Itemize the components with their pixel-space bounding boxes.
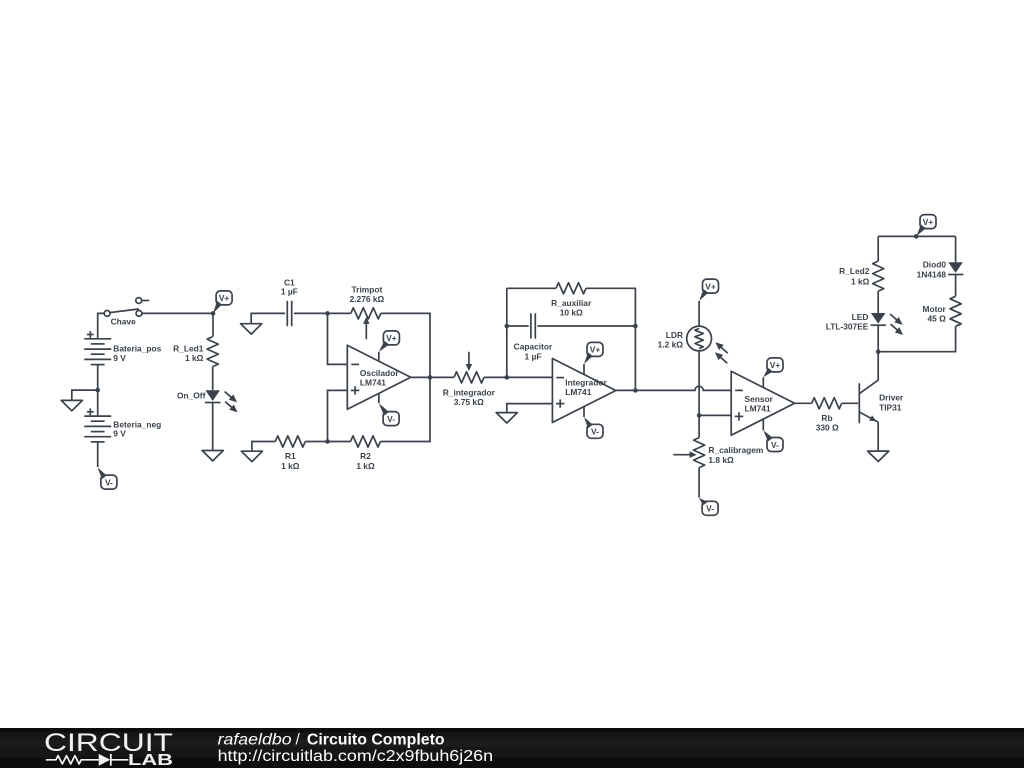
resistor R1 — [275, 436, 305, 447]
wire — [506, 288, 508, 377]
wire — [252, 442, 275, 452]
wire — [877, 325, 879, 352]
transistor Driver TIP31 — [858, 384, 860, 423]
svg-text:10 kΩ: 10 kΩ — [560, 308, 583, 318]
svg-text:Oscilador: Oscilador — [360, 368, 399, 378]
svg-text:R_auxiliar: R_auxiliar — [551, 298, 592, 308]
junction — [211, 311, 216, 316]
net flag V- (op-amp Oscilador) — [378, 393, 380, 403]
svg-text:1N4148: 1N4148 — [917, 270, 947, 280]
op-amp Sensor LM741 — [731, 371, 794, 435]
ground — [61, 400, 82, 410]
LED light arrows — [225, 392, 232, 398]
wire — [305, 441, 327, 443]
wire — [877, 352, 879, 380]
svg-text:Integrador: Integrador — [565, 377, 607, 387]
pot arrow — [673, 454, 690, 456]
svg-text:1 kΩ: 1 kΩ — [185, 353, 204, 363]
svg-text:1.8 kΩ: 1.8 kΩ — [708, 455, 734, 465]
wire — [955, 236, 957, 262]
svg-text:LED: LED — [852, 312, 869, 322]
wire — [877, 236, 879, 261]
wire — [97, 442, 99, 467]
wire — [507, 325, 529, 327]
junction — [633, 324, 638, 329]
svg-text:1 kΩ: 1 kΩ — [281, 461, 300, 471]
LED light arrows — [890, 314, 897, 320]
motor Motor 45 — [950, 296, 961, 326]
net flag V+ (supply) — [213, 301, 222, 314]
wire — [795, 402, 812, 404]
diode Diod0 1N4148 — [948, 262, 963, 273]
wire — [616, 389, 636, 391]
svg-text:2.276 kΩ: 2.276 kΩ — [350, 294, 385, 304]
junction node A — [325, 311, 330, 316]
wire — [294, 312, 328, 314]
potentiometer R_calibragem — [694, 438, 705, 468]
wire — [698, 301, 700, 326]
svg-text:V+: V+ — [923, 217, 934, 227]
resistor R2 — [351, 436, 381, 447]
wire — [507, 404, 553, 413]
wire — [328, 312, 351, 314]
svg-text:Chave: Chave — [111, 317, 136, 327]
wire — [878, 235, 955, 237]
svg-text:LM741: LM741 — [565, 387, 591, 397]
ground — [868, 451, 889, 461]
svg-text:LTL-307EE: LTL-307EE — [826, 322, 869, 332]
svg-text:45 Ω: 45 Ω — [927, 314, 946, 324]
svg-text:rafaeldbo: rafaeldbo — [218, 731, 292, 748]
wire — [142, 312, 213, 314]
svg-text:V-: V- — [591, 427, 599, 437]
op-amp Oscilador LM741 — [347, 345, 410, 409]
junction — [505, 375, 510, 380]
svg-text:R_integrador: R_integrador — [443, 387, 496, 397]
svg-text:LAB: LAB — [128, 752, 173, 768]
trimpot arrow — [365, 323, 367, 340]
svg-text:On_Off: On_Off — [177, 390, 206, 400]
wire — [328, 390, 348, 441]
LDR light arrows — [721, 347, 728, 353]
wire with hop — [635, 386, 731, 390]
svg-text:LM741: LM741 — [360, 378, 386, 388]
ground — [202, 451, 223, 461]
svg-text:9 V: 9 V — [113, 429, 126, 439]
svg-text:V-: V- — [387, 414, 395, 424]
switch Chave — [110, 309, 139, 313]
net flag V+ (op-amp Integrador) — [583, 364, 585, 375]
LED On_Off — [205, 390, 220, 401]
resistor Rb — [812, 398, 842, 409]
wire — [97, 390, 99, 416]
wire — [698, 468, 700, 498]
svg-text:http://circuitlab.com/c2x9fbuh: http://circuitlab.com/c2x9fbuh6j26n — [218, 748, 494, 765]
wire — [877, 291, 879, 313]
junction — [428, 375, 433, 380]
svg-text:1 µF: 1 µF — [525, 351, 542, 361]
ground — [496, 413, 517, 423]
battery Beteria_neg — [84, 415, 111, 417]
resistor R_auxiliar — [556, 283, 586, 294]
wire — [877, 422, 879, 451]
wire — [484, 376, 507, 378]
wire — [698, 415, 700, 437]
svg-text:V-: V- — [105, 477, 113, 487]
wire — [507, 376, 553, 378]
net flag V+ (output stage) — [916, 225, 926, 237]
wire — [430, 376, 454, 378]
wire — [842, 402, 858, 404]
rheostat R_integrador — [454, 372, 484, 383]
rheostat arrow — [468, 352, 470, 365]
svg-text:R_Led2: R_Led2 — [839, 266, 870, 276]
wire — [878, 326, 955, 351]
photoresistor LDR — [687, 326, 712, 351]
svg-text:3.75 kΩ: 3.75 kΩ — [454, 397, 484, 407]
junction — [325, 439, 330, 444]
wire — [411, 376, 430, 378]
svg-text:Rb: Rb — [821, 413, 832, 423]
wire — [98, 313, 104, 338]
wire — [251, 313, 285, 323]
svg-text:/: / — [296, 731, 301, 748]
net flag V+ (op-amp Oscilador) — [378, 352, 380, 361]
svg-text:V+: V+ — [386, 333, 397, 343]
net flag V+ (op-amp Sensor) — [762, 377, 764, 387]
svg-text:Capacitor: Capacitor — [514, 342, 553, 352]
svg-text:V-: V- — [771, 440, 779, 450]
svg-text:V+: V+ — [590, 345, 601, 355]
svg-text:1 kΩ: 1 kΩ — [851, 276, 870, 286]
svg-text:Driver: Driver — [879, 393, 904, 403]
footer bar — [0, 728, 1024, 768]
junction — [914, 234, 919, 239]
svg-text:LM741: LM741 — [745, 404, 771, 414]
svg-text:9 V: 9 V — [113, 353, 126, 363]
svg-text:V+: V+ — [219, 293, 230, 303]
svg-text:Motor: Motor — [923, 304, 947, 314]
wire — [97, 365, 99, 391]
wire — [212, 367, 214, 391]
svg-text:Circuito Completo: Circuito Completo — [307, 731, 445, 748]
svg-text:1 µF: 1 µF — [281, 287, 298, 297]
svg-text:330 Ω: 330 Ω — [816, 423, 839, 433]
svg-text:R_Led1: R_Led1 — [173, 343, 204, 353]
svg-text:1 kΩ: 1 kΩ — [356, 461, 375, 471]
net flag V- (R_calibragem) — [699, 498, 708, 505]
ground — [241, 324, 262, 334]
capacitor Capacitor — [530, 313, 532, 338]
wire — [955, 274, 957, 296]
svg-text:V+: V+ — [770, 360, 781, 370]
junction — [633, 388, 638, 393]
resistor R_Led1 — [207, 337, 218, 367]
wire — [212, 402, 214, 450]
svg-text:Diod0: Diod0 — [923, 259, 947, 269]
svg-text:R1: R1 — [285, 451, 296, 461]
ground — [241, 451, 262, 461]
svg-text:Sensor: Sensor — [745, 394, 774, 404]
wire — [381, 377, 431, 441]
net flag V+ (LDR) — [699, 289, 708, 301]
wire — [328, 441, 351, 443]
wire — [699, 414, 731, 416]
wire — [381, 313, 430, 377]
svg-text:V+: V+ — [705, 281, 716, 291]
wire — [328, 313, 348, 364]
svg-text:V-: V- — [706, 504, 714, 514]
svg-text:Bateria_pos: Bateria_pos — [113, 343, 161, 353]
op-amp Integrador LM741 — [552, 359, 615, 423]
logo resistor-diode glyph — [46, 756, 99, 764]
wire — [212, 313, 214, 336]
junction — [95, 388, 100, 393]
net flag V- (op-amp Integrador) — [583, 407, 585, 417]
junction — [697, 413, 702, 418]
svg-text:R_calibragem: R_calibragem — [708, 445, 763, 455]
wire — [698, 351, 700, 416]
wire — [72, 390, 98, 400]
junction — [876, 349, 881, 354]
junction — [505, 324, 510, 329]
LED LED LTL-307EE — [871, 313, 886, 324]
svg-text:LDR: LDR — [666, 330, 683, 340]
wire — [586, 288, 635, 390]
wire — [507, 287, 556, 289]
potentiometer Trimpot — [351, 308, 381, 319]
wire — [538, 325, 636, 327]
capacitor C1 — [286, 301, 288, 326]
resistor R_Led2 — [873, 261, 884, 291]
net flag V- (op-amp Sensor) — [762, 419, 764, 430]
battery Bateria_pos — [84, 338, 111, 340]
svg-text:1.2 kΩ: 1.2 kΩ — [658, 340, 684, 350]
net flag V- (battery) — [98, 468, 107, 480]
svg-text:TIP31: TIP31 — [879, 402, 902, 412]
svg-text:R2: R2 — [360, 451, 371, 461]
